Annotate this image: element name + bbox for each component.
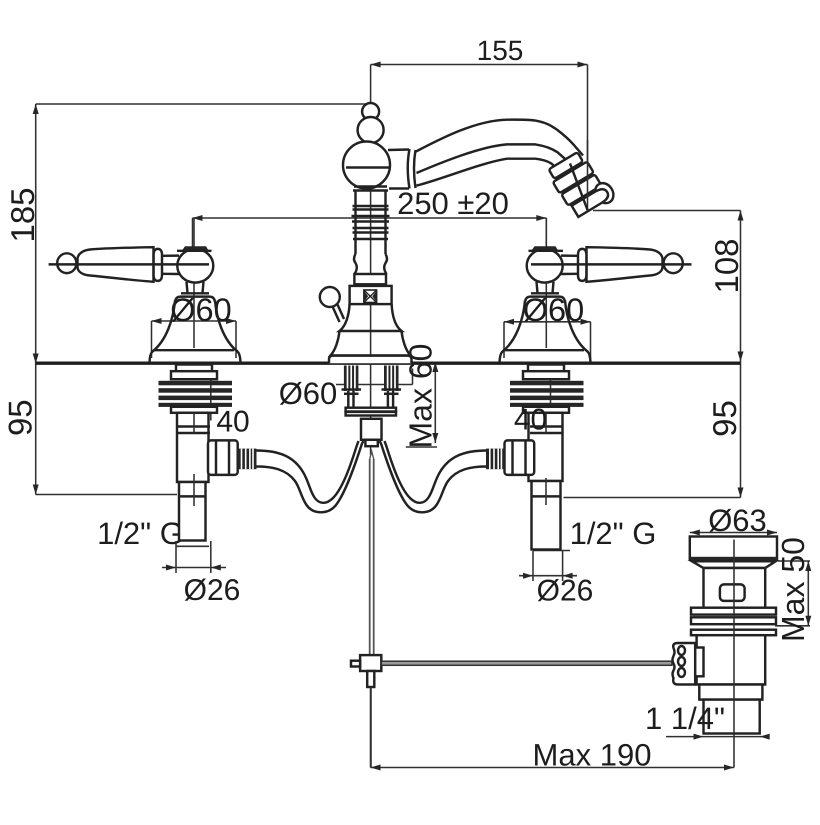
spout center line through aerator <box>570 163 588 210</box>
right handle center line <box>545 218 547 348</box>
left handle bell <box>150 297 241 363</box>
dimension Max 190 <box>371 687 735 773</box>
right hex fitting <box>486 440 534 475</box>
svg-text:1 1/4": 1 1/4" <box>645 701 725 736</box>
drain center line <box>733 540 735 734</box>
svg-text:40: 40 <box>514 404 547 437</box>
right hose <box>380 441 487 512</box>
spout aerator <box>546 147 617 222</box>
center axis faucet <box>370 65 372 456</box>
dimension D26 left <box>162 541 240 607</box>
stud rods <box>348 391 393 408</box>
svg-text:108: 108 <box>708 238 745 293</box>
left hose <box>257 441 364 512</box>
washer plates <box>346 408 396 412</box>
rod clamp block <box>351 655 381 767</box>
svg-text:185: 185 <box>4 187 41 242</box>
horizontal rod <box>381 661 742 665</box>
svg-text:155: 155 <box>477 35 524 66</box>
left hex fitting <box>208 440 257 475</box>
right handle <box>527 246 692 293</box>
cross box <box>364 290 377 303</box>
spout <box>388 120 583 189</box>
svg-text:Max 190: Max 190 <box>533 738 652 773</box>
dimension 95 left <box>2 364 178 495</box>
svg-text:1/2" G: 1/2" G <box>97 516 184 551</box>
right valve under deck <box>510 365 584 550</box>
left handle center line <box>193 218 195 348</box>
dimension 40 right <box>550 366 552 412</box>
drain knurled wheel <box>673 643 704 685</box>
right stud under deck <box>382 366 402 394</box>
svg-text:Ø60: Ø60 <box>279 376 338 411</box>
dimension 250 +-20 <box>193 186 547 249</box>
dimension 1 1/4" <box>645 701 770 740</box>
right handle bell <box>500 297 591 363</box>
center nut <box>361 419 382 440</box>
label 1/2" G left <box>97 516 209 551</box>
label 1/2" G right <box>533 516 656 551</box>
dimension 108 <box>593 211 745 362</box>
dimension 155 <box>371 35 588 211</box>
extension line over aerator <box>587 140 589 211</box>
svg-text:1/2" G: 1/2" G <box>570 516 657 551</box>
dimension Max 50 <box>775 537 811 642</box>
dimension 95 right <box>564 362 744 498</box>
svg-text:40: 40 <box>216 406 249 439</box>
left handle <box>49 246 214 293</box>
dimension 185 <box>4 104 371 364</box>
svg-text:95: 95 <box>706 400 743 437</box>
faucet bell center <box>329 304 412 363</box>
svg-text:250 ±20: 250 ±20 <box>397 186 509 221</box>
dimension Max 60 <box>403 344 439 449</box>
dimension D63 <box>690 503 777 538</box>
svg-text:95: 95 <box>2 399 39 436</box>
dimension D60 left <box>152 292 237 358</box>
faucet column <box>343 103 392 304</box>
dimension D60 center <box>279 369 413 412</box>
svg-text:Ø63: Ø63 <box>708 503 767 538</box>
dimension 40 left <box>211 366 250 439</box>
deck line <box>36 362 741 365</box>
svg-text:Ø26: Ø26 <box>184 574 241 607</box>
pull rod knob <box>320 287 344 322</box>
dimension D26 right <box>519 551 593 608</box>
left valve under deck <box>159 365 233 541</box>
dimension D60 right <box>504 292 591 358</box>
pop-up rod <box>370 452 374 656</box>
svg-text:Ø26: Ø26 <box>537 575 594 608</box>
svg-text:Max 50: Max 50 <box>775 537 811 642</box>
pop-up drain <box>690 537 777 734</box>
left stud under deck <box>342 366 362 394</box>
